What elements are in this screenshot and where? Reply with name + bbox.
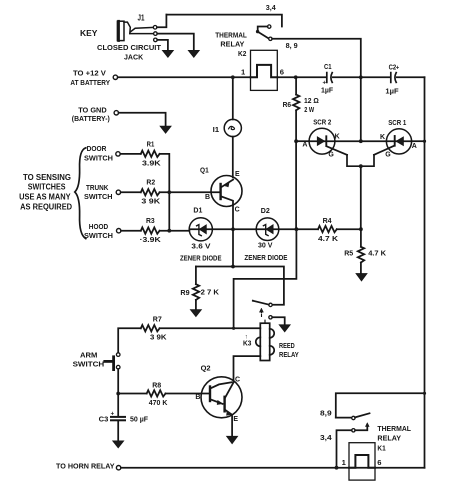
label K3 xyxy=(243,334,251,347)
label 3,4 (K1) xyxy=(320,433,333,442)
capacitor C1 xyxy=(323,73,333,87)
ground (Q2) xyxy=(227,436,238,443)
node R7 row / D2 branch xyxy=(232,327,235,330)
svg-text:B: B xyxy=(195,394,200,401)
wire SCR anode row left xyxy=(294,139,309,229)
wire SCR gate network xyxy=(347,155,374,229)
label D1 value xyxy=(180,241,222,262)
reed switch blade xyxy=(252,300,269,305)
label D1 xyxy=(193,205,203,214)
SCR Q4 (SCR1) xyxy=(374,129,412,155)
wire K2 contact arm anchor xyxy=(258,27,268,32)
svg-text:C3: C3 xyxy=(99,415,109,424)
resistor R6 xyxy=(293,77,299,141)
svg-text:C2: C2 xyxy=(389,62,397,71)
wire K1 top branch xyxy=(336,393,425,417)
label R1 xyxy=(147,139,155,148)
svg-text:+: + xyxy=(396,65,400,71)
svg-text:6: 6 xyxy=(280,68,284,77)
transistor Q1 xyxy=(211,176,242,207)
svg-text:ZENER DIODE: ZENER DIODE xyxy=(244,253,287,262)
svg-text:K: K xyxy=(380,134,385,141)
wire R8 to Q2 base xyxy=(166,393,211,395)
label TO SENSING SWITCHES USE AS MANY AS REQUIRED xyxy=(19,173,72,212)
label C1 value xyxy=(321,86,333,95)
reed switch upper contact xyxy=(269,303,272,306)
resistor R7 xyxy=(141,325,160,331)
svg-text:D1: D1 xyxy=(193,205,203,214)
wire J1 ring to ground xyxy=(157,34,194,51)
node Q1 collector junction xyxy=(231,227,235,231)
svg-text:1: 1 xyxy=(241,67,246,76)
label C3 value xyxy=(130,414,148,423)
ground (R9) xyxy=(190,310,201,317)
wire J1 tip to 3,4 line xyxy=(157,15,166,28)
svg-text:3,4: 3,4 xyxy=(320,433,333,442)
svg-text:E: E xyxy=(235,171,240,178)
thermal relay K2 heater box xyxy=(251,50,278,90)
wire R8 row xyxy=(118,393,147,395)
node hood row xyxy=(167,229,171,233)
svg-text:G: G xyxy=(328,151,334,158)
label D2 value xyxy=(244,241,287,262)
svg-text:R1: R1 xyxy=(147,139,155,148)
label Q1 B xyxy=(205,194,210,201)
svg-text:SCR 2: SCR 2 xyxy=(313,118,331,127)
wire hood row xyxy=(121,230,141,232)
svg-text:SWITCHES: SWITCHES xyxy=(28,183,66,192)
label SCR2 A xyxy=(302,141,307,148)
wire R3 to D1 xyxy=(160,230,190,232)
svg-text:8, 9: 8, 9 xyxy=(286,41,298,50)
label R9 xyxy=(180,288,189,297)
svg-text:AT BATTERY: AT BATTERY xyxy=(70,78,110,87)
svg-text:1µF: 1µF xyxy=(385,87,399,96)
svg-text:C: C xyxy=(235,207,240,214)
svg-text:R8: R8 xyxy=(152,381,161,390)
K1 switch blade xyxy=(355,413,370,417)
label Q1 C xyxy=(235,207,240,214)
brace sensing switches xyxy=(75,148,86,239)
label SCR1 A xyxy=(412,143,417,150)
node R9 row xyxy=(231,265,235,269)
jack J1 body xyxy=(117,21,153,40)
label TO GND (BATTERY-) xyxy=(72,106,110,124)
label R3 xyxy=(146,216,155,225)
svg-text:JACK: JACK xyxy=(124,53,144,62)
wire right bus xyxy=(424,77,426,467)
label I1 xyxy=(213,125,220,134)
wire top 3,4 line xyxy=(166,15,282,27)
svg-text:↑: ↑ xyxy=(245,334,248,340)
svg-text:3 9K: 3 9K xyxy=(141,196,160,205)
label Q2 xyxy=(201,364,211,373)
resistor R8 xyxy=(147,390,166,396)
resistor R2 xyxy=(141,189,160,195)
svg-text:CLOSED CIRCUIT: CLOSED CIRCUIT xyxy=(97,43,161,52)
transistor Q2 (darlington) xyxy=(201,377,242,418)
svg-text:50 µF: 50 µF xyxy=(130,414,148,423)
svg-text:SWITCH: SWITCH xyxy=(84,192,113,201)
label K2 pin 1 xyxy=(241,67,246,76)
zener diode D2 xyxy=(256,218,279,241)
resistor R1 xyxy=(141,151,160,157)
ground (J1 sleeve) xyxy=(162,50,173,57)
thermal relay K1 heater box xyxy=(349,443,375,480)
wire D1 to D2 xyxy=(212,228,256,230)
svg-text:A: A xyxy=(412,143,417,150)
svg-text:R9: R9 xyxy=(180,288,189,297)
terminal trunk switch xyxy=(116,190,120,194)
svg-text:6: 6 xyxy=(377,458,381,467)
thermal relay K2 contact 8,9 xyxy=(269,37,272,40)
svg-text:C: C xyxy=(235,377,240,384)
svg-text:THERMAL: THERMAL xyxy=(377,424,411,433)
label R2 value xyxy=(141,196,160,205)
wire arm switch to R8 node xyxy=(117,369,119,394)
svg-text:AS REQUIRED: AS REQUIRED xyxy=(20,202,72,211)
wire J1 sleeve to ground xyxy=(157,40,168,51)
wire R2 to Q1 base xyxy=(160,191,221,193)
node I1 top xyxy=(231,75,235,79)
svg-text:TO +12 V: TO +12 V xyxy=(73,68,107,77)
ground (C3) xyxy=(113,441,124,448)
svg-text:Q1: Q1 xyxy=(200,165,209,174)
label SCR 1 xyxy=(388,118,407,127)
wire C1 to C2 xyxy=(333,76,390,78)
label R4 xyxy=(323,216,333,225)
terminal horn relay xyxy=(116,466,120,470)
ground (battery) xyxy=(160,126,171,133)
zener diode D1 xyxy=(189,218,212,241)
wire GND terminal xyxy=(119,113,166,127)
arm switch xyxy=(105,353,120,370)
label R2 xyxy=(146,178,155,187)
svg-text:8,9: 8,9 xyxy=(320,409,332,418)
svg-text:R3: R3 xyxy=(146,216,155,225)
wire reed lower contact to ground xyxy=(272,317,285,325)
svg-text:DOOR: DOOR xyxy=(87,144,107,153)
label R7 value xyxy=(150,333,167,342)
svg-text:SWITCH: SWITCH xyxy=(73,359,105,368)
wire K1 contact 3,4 to bottom bus xyxy=(337,430,352,467)
label 3,4 (top) xyxy=(266,3,277,12)
svg-text:REED: REED xyxy=(279,341,295,350)
label ARM SWITCH xyxy=(73,350,105,368)
label K2 pin 6 xyxy=(280,68,284,77)
J1 tip contact xyxy=(153,26,157,30)
wire K2 contact to SCR cathode node xyxy=(272,39,361,78)
svg-text:SWITCH: SWITCH xyxy=(84,231,113,240)
label SCR2 G xyxy=(328,151,334,158)
label R8 xyxy=(152,381,161,390)
wire bottom bus xyxy=(121,467,425,469)
svg-text:TO HORN RELAY: TO HORN RELAY xyxy=(56,462,115,471)
resistor R9 xyxy=(193,267,199,310)
label R6 xyxy=(283,100,292,109)
label THERMAL RELAY K2 xyxy=(215,31,247,59)
wire D2 node down and across xyxy=(234,229,297,328)
svg-text:RELAY: RELAY xyxy=(377,433,401,442)
svg-text:3.9K: 3.9K xyxy=(142,158,161,167)
label R6 value xyxy=(304,96,319,114)
wire Q2 emitter to ground xyxy=(231,416,233,436)
label Q2 C xyxy=(235,377,240,384)
label TO HORN RELAY xyxy=(56,462,115,471)
wire C2 to right bus xyxy=(397,76,425,78)
label R8 value xyxy=(149,398,168,407)
node trunk row xyxy=(167,190,171,194)
node K1 3,4 bottom xyxy=(335,466,339,470)
label Q1 E xyxy=(235,171,240,178)
svg-text:4.7 K: 4.7 K xyxy=(318,234,339,243)
svg-text:R4: R4 xyxy=(323,216,333,225)
label Q2 E xyxy=(233,416,238,423)
svg-text:12 Ω: 12 Ω xyxy=(304,96,319,105)
label R5 xyxy=(344,248,354,257)
svg-text:B: B xyxy=(205,194,210,201)
svg-text:·3.9K: ·3.9K xyxy=(140,235,162,244)
wire SCR K-K row xyxy=(335,140,387,142)
svg-text:3.6 V: 3.6 V xyxy=(191,241,211,250)
node R8 / C3 xyxy=(116,392,120,396)
relay coil K3 xyxy=(256,320,274,360)
node gate center xyxy=(359,164,363,168)
svg-text:KEY: KEY xyxy=(80,29,98,38)
resistor R3 xyxy=(141,227,160,233)
label THERMAL RELAY K1 xyxy=(377,424,411,453)
K2 switch pivot xyxy=(256,30,259,33)
svg-text:SWITCH: SWITCH xyxy=(84,154,113,163)
svg-text:R5: R5 xyxy=(344,248,354,257)
svg-text:1µF: 1µF xyxy=(321,86,333,95)
label C3 xyxy=(99,415,109,424)
label C2 value xyxy=(385,87,399,96)
svg-text:R7: R7 xyxy=(153,314,162,323)
node SCR cathode feed xyxy=(359,75,363,79)
svg-text:+: + xyxy=(111,411,115,417)
label DOOR SWITCH xyxy=(84,144,113,162)
terminal GND xyxy=(114,111,118,115)
svg-text:I1: I1 xyxy=(213,125,220,134)
label J1 xyxy=(138,14,145,23)
wire R7 to K3 xyxy=(160,327,261,329)
terminal door switch xyxy=(116,152,120,156)
svg-text:K1: K1 xyxy=(377,444,386,453)
wire SCR1 anode to right bus xyxy=(412,140,425,142)
label KEY xyxy=(80,29,98,38)
thermal relay K2 contact 3,4 xyxy=(268,25,271,28)
wire SCR cathode drop xyxy=(360,77,362,141)
svg-text:4.7 K: 4.7 K xyxy=(368,249,386,258)
label R1 value xyxy=(142,158,161,167)
label TO +12 V AT BATTERY xyxy=(70,68,110,86)
capacitor C3 xyxy=(111,394,125,441)
svg-text:ZENER DIODE: ZENER DIODE xyxy=(180,254,222,263)
svg-text:1: 1 xyxy=(342,458,347,467)
svg-text:C1: C1 xyxy=(324,62,332,71)
label R7 xyxy=(153,314,162,323)
K2 switch blade xyxy=(258,32,269,39)
svg-text:470 K: 470 K xyxy=(149,398,168,407)
wire R9 row xyxy=(196,267,284,305)
thermal relay K1 contact 3,4 xyxy=(352,429,355,432)
label Q2 B xyxy=(195,394,200,401)
label D2 xyxy=(261,206,270,215)
J1 sleeve contact xyxy=(154,38,158,42)
svg-text:SCR 1: SCR 1 xyxy=(388,118,407,127)
label C1 xyxy=(324,62,332,71)
capacitor C2 xyxy=(391,65,400,82)
node right bus SCR row xyxy=(423,140,426,143)
label R4 value xyxy=(318,234,339,243)
label R5 value xyxy=(368,249,386,258)
label R3 value xyxy=(140,235,162,244)
svg-text:TRUNK: TRUNK xyxy=(86,183,109,192)
node R4/R5 xyxy=(359,227,363,231)
wire trunk row xyxy=(121,191,141,193)
svg-text:(BATTERY-): (BATTERY-) xyxy=(72,114,110,123)
svg-text:HOOD: HOOD xyxy=(89,222,109,231)
svg-text:30 V: 30 V xyxy=(258,241,273,250)
label 8,9 (K1) xyxy=(320,409,332,418)
svg-text:2 W: 2 W xyxy=(304,105,314,114)
node SCR K-K xyxy=(359,139,363,143)
svg-text:D2: D2 xyxy=(261,206,270,215)
wire Q1 collector to zener row xyxy=(232,205,234,230)
J1 ring contact xyxy=(154,32,158,36)
svg-text:Q2: Q2 xyxy=(201,364,211,373)
svg-text:2 7 K: 2 7 K xyxy=(201,288,220,297)
svg-text:R2: R2 xyxy=(146,178,155,187)
wire Q2 collector to K3 xyxy=(234,356,261,381)
ground (J1 ring) xyxy=(188,50,199,57)
svg-text:E: E xyxy=(233,416,238,423)
wire R4 to R5 node xyxy=(337,228,361,230)
svg-text:J1: J1 xyxy=(138,14,145,23)
ground (R5) xyxy=(356,274,367,281)
label R9 value xyxy=(201,288,220,297)
label REED RELAY xyxy=(279,341,299,359)
label CLOSED CIRCUIT JACK xyxy=(97,43,161,62)
ground (reed switch) xyxy=(279,325,290,332)
label K1 pin 6 xyxy=(377,458,381,467)
label 8,9 (K2) xyxy=(286,41,298,50)
resistor R5 xyxy=(358,229,364,273)
svg-text:THERMAL: THERMAL xyxy=(215,31,247,40)
wire door row xyxy=(120,153,141,155)
svg-text:K: K xyxy=(335,134,340,141)
wire +12V bus to K2 xyxy=(118,76,251,78)
svg-text:RELAY: RELAY xyxy=(279,350,299,359)
SCR Q3 (SCR2) xyxy=(309,128,347,155)
svg-text:A: A xyxy=(302,141,307,148)
node K1 top right xyxy=(423,392,426,395)
wire R7 row xyxy=(118,328,141,352)
label SCR 2 xyxy=(313,118,331,127)
label SCR1 K xyxy=(380,134,385,141)
svg-text:R6: R6 xyxy=(283,100,292,109)
label Q1 xyxy=(200,165,209,174)
label K1 pin 1 xyxy=(342,458,347,467)
wire R1 to bus xyxy=(160,154,170,231)
label SCR1 G xyxy=(385,151,391,158)
wire D2 to R4 xyxy=(279,228,318,230)
svg-text:USE AS MANY: USE AS MANY xyxy=(19,192,71,201)
node D2 cathode junction xyxy=(295,227,299,231)
label HOOD SWITCH xyxy=(84,222,113,240)
terminal +12V xyxy=(113,75,117,79)
label C2 xyxy=(389,62,397,71)
node R6 top xyxy=(294,75,298,79)
label SCR2 K xyxy=(335,134,340,141)
label TRUNK SWITCH xyxy=(84,183,113,201)
reed switch actuation arrow xyxy=(260,308,264,316)
thermal relay K1 contact 8,9 xyxy=(352,416,355,419)
terminal hood switch xyxy=(117,229,121,233)
svg-text:K2: K2 xyxy=(238,49,246,58)
svg-text:3,4: 3,4 xyxy=(266,3,277,12)
resistor R4 xyxy=(318,226,337,232)
wire K1 contact 8,9 lead xyxy=(336,417,352,419)
reed switch lower contact xyxy=(269,316,272,319)
svg-text:G: G xyxy=(385,151,391,158)
wire K2 pin6 to C1 xyxy=(277,76,326,78)
lamp I1 xyxy=(224,77,241,177)
svg-text:ARM: ARM xyxy=(80,350,97,359)
svg-text:RELAY: RELAY xyxy=(220,40,244,49)
wire K1 moving contact arm xyxy=(355,423,369,431)
svg-text:TO SENSING: TO SENSING xyxy=(23,173,71,182)
wire Q1 collector node to R9 row xyxy=(232,229,234,266)
svg-text:3 9K: 3 9K xyxy=(150,333,167,342)
